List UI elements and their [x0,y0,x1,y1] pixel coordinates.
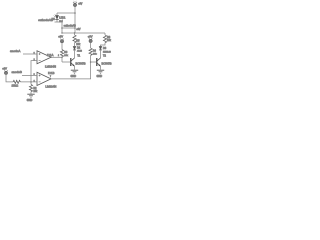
ground divider [27,94,34,97]
svg-text:R3: R3 [64,52,68,54]
svg-text:10k: 10k [107,39,112,42]
svg-text:1N4148: 1N4148 [103,52,111,54]
wire anodeA [23,53,37,55]
node at 75,28 [74,27,76,29]
svg-text:LED1: LED1 [59,17,66,20]
LED D1 [54,13,59,22]
svg-text:IC1B: IC1B [48,71,54,75]
svg-text:10kΩ: 10kΩ [12,83,19,87]
wire base T2 [91,61,97,63]
svg-text:1: 1 [58,55,59,57]
node output A [61,57,63,59]
wire output B [51,62,91,79]
svg-text:10k: 10k [33,91,38,93]
svg-text:LM324N: LM324N [45,65,56,69]
wire LED top horizontal y13 [57,12,75,14]
node divider [30,81,32,83]
svg-text:T1: T1 [77,55,80,58]
transistor T1 [71,56,75,70]
resistor R6 [101,33,107,46]
svg-text:anodeB: anodeB [12,70,22,74]
power +9V flag branch1 [58,35,64,50]
svg-text:+9V: +9V [2,66,7,70]
node at 62,28 [61,27,63,29]
wire anodeB [22,74,37,76]
svg-text:+9V: +9V [88,34,93,38]
wire inverting input A [31,61,37,82]
ground T2 [97,70,104,73]
ground T1 [71,70,78,73]
node base B [90,61,92,63]
op-amp IC1B [37,72,51,85]
svg-text:cathodeAB: cathodeAB [38,18,53,22]
diode D2 [73,46,76,56]
resistor R2 [29,82,32,94]
power +9V flag left [2,66,13,82]
resistor R5 [73,33,76,46]
svg-text:GND: GND [97,75,103,78]
wire base T1 [62,61,70,63]
svg-text:D3: D3 [103,47,107,50]
svg-text:4148: 4148 [77,51,83,53]
wire cathode staircase [57,22,62,33]
resistor R1 [13,80,20,83]
svg-text:+9V: +9V [76,28,81,31]
svg-text:R4: R4 [93,51,97,53]
svg-text:LM324N: LM324N [45,85,56,89]
transistor T2 [97,56,101,70]
svg-text:IC1A: IC1A [47,53,53,57]
svg-text:red: red [59,20,63,23]
svg-text:anodeA: anodeA [10,49,20,53]
power +9V flag branch2 [88,34,93,48]
svg-text:10k: 10k [76,43,81,46]
svg-text:+9V: +9V [58,35,63,39]
svg-text:cathodeAB: cathodeAB [64,25,77,28]
wire node down to base [61,57,63,62]
svg-text:+9V: +9V [78,4,83,6]
op-amp IC1A [37,51,51,64]
wire divider [20,81,37,83]
svg-text:BC547B: BC547B [102,61,112,65]
resistor R3 [60,50,63,57]
svg-text:BC547B: BC547B [76,61,86,65]
resistor R4 [89,48,92,62]
wire bridge y28 [62,27,75,29]
wire rail y33 [62,32,105,34]
diode D3 [99,46,102,56]
svg-text:D2: D2 [77,46,81,49]
svg-text:GND: GND [71,75,77,78]
svg-text:10k: 10k [64,55,68,57]
wire output A to base node [51,56,62,58]
svg-text:T2: T2 [103,55,106,58]
svg-text:7: 7 [50,76,51,78]
wire cathode stub [55,21,58,23]
power +9V supply symbol top [73,1,83,7]
node rail junctions [61,32,62,33]
wire VCC vertical x75 [74,7,76,33]
svg-text:10k: 10k [93,54,97,56]
node at 75,13 [74,12,76,14]
svg-text:R2: R2 [33,87,37,90]
svg-text:GND: GND [27,99,33,102]
